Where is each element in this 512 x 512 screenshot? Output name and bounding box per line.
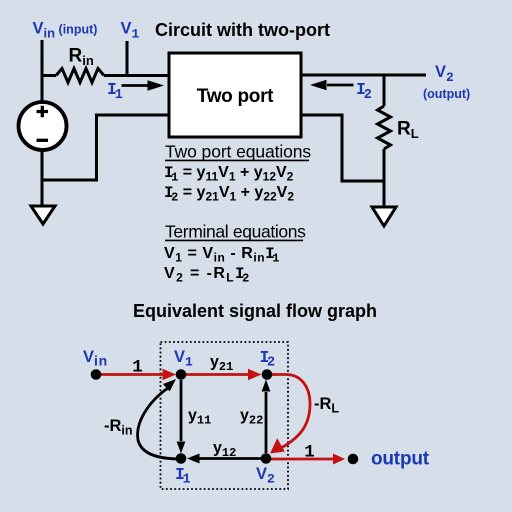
wire RL branch top [383, 75, 386, 106]
wire lower-left return [42, 115, 169, 180]
edge V2-I1 gain y12 (black) [187, 454, 261, 464]
wire lower-right return [301, 115, 384, 181]
edge V1-I1 gain y11 (black) [177, 380, 186, 454]
heading: Two port equations [165, 142, 311, 162]
wire top-left horizontal [42, 74, 169, 77]
wire source to ground [41, 150, 44, 206]
node output (flow graph) [348, 454, 359, 465]
node V1 (flow graph) [176, 369, 187, 380]
node V2 (flow graph) [261, 453, 272, 464]
ground (left) [31, 206, 55, 224]
svg-text:1: 1 [304, 443, 315, 463]
two-port network box U1 [169, 53, 301, 137]
wire RL to ground [383, 149, 386, 207]
svg-text:output: output [371, 449, 430, 470]
edge V1-I2 gain y21 (red) [181, 369, 262, 380]
resistor Rin [56, 69, 104, 83]
edge Vin-V1 gain 1 (red) [96, 369, 176, 380]
wire top-right horizontal [301, 74, 426, 77]
current arrow I1 [122, 80, 165, 90]
edge V2-output gain 1 (red) [266, 454, 345, 465]
edge I1-V1 gain -Rin (black arc) [138, 379, 181, 459]
node I1 (flow graph) [176, 453, 187, 464]
svg-text:Two port: Two port [197, 86, 274, 107]
edge V2-I2 gain y22 (black) [262, 380, 271, 454]
svg-text:1: 1 [132, 358, 143, 378]
current arrow I2 [310, 80, 354, 90]
node Vin (flow graph) [91, 369, 102, 380]
resistor RL [378, 106, 391, 149]
edge I2-V2 gain -RL (red arc) [267, 375, 310, 454]
svg-text:Equivalent signal flow graph: Equivalent signal flow graph [133, 301, 377, 321]
voltage source Vin [19, 102, 67, 150]
node V2 label (output) [423, 63, 470, 101]
ground (right) [372, 207, 396, 226]
svg-text:Two port equations: Two port equations [165, 142, 311, 162]
wire V1 stem [126, 41, 129, 77]
wire Vin stem [41, 40, 44, 104]
dashed two-port boundary (flow graph) [161, 342, 289, 489]
node I2 (flow graph) [262, 369, 273, 380]
svg-text:Circuit with two-port: Circuit with two-port [155, 20, 330, 40]
heading: Terminal equations [165, 222, 306, 242]
svg-text:(output): (output) [423, 87, 470, 101]
svg-text:Terminal equations: Terminal equations [165, 222, 306, 242]
